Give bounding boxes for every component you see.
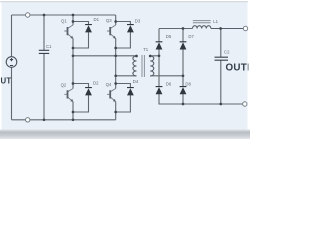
svg-text:C1: C1 xyxy=(46,44,52,49)
svg-text:D8: D8 xyxy=(185,81,191,86)
svg-text:D5: D5 xyxy=(166,34,172,39)
svg-text:Q2: Q2 xyxy=(61,83,67,88)
svg-text:D7: D7 xyxy=(188,34,194,39)
svg-text:T1: T1 xyxy=(143,47,149,52)
svg-text:D2: D2 xyxy=(93,81,99,86)
svg-text:Q1: Q1 xyxy=(61,18,67,23)
svg-text:Q3: Q3 xyxy=(106,18,112,23)
svg-text:Q4: Q4 xyxy=(106,82,112,87)
svg-text:L1: L1 xyxy=(213,19,218,24)
svg-text:D6: D6 xyxy=(166,81,172,86)
svg-text:D4: D4 xyxy=(133,79,139,84)
svg-text:C2: C2 xyxy=(224,50,230,55)
svg-text:D1: D1 xyxy=(94,17,100,22)
svg-text:D3: D3 xyxy=(135,19,141,24)
svg-text:INPUT: INPUT xyxy=(0,77,11,86)
svg-text:OUTPUT: OUTPUT xyxy=(226,63,251,74)
